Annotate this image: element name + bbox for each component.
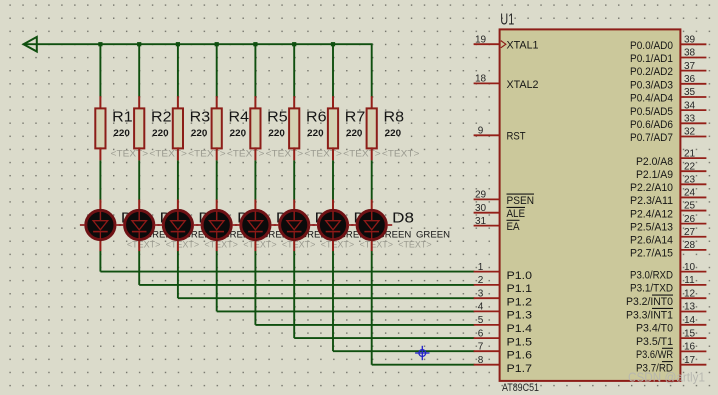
wire: R1 top lead xyxy=(99,96,101,109)
svg-text:P2.7/A15: P2.7/A15 xyxy=(630,248,673,260)
svg-text:P0.2/AD2: P0.2/AD2 xyxy=(630,66,673,78)
svg-text:24: 24 xyxy=(684,188,696,199)
pin 35 P0.4/AD4 xyxy=(630,87,706,104)
wire: bus drop to R7 xyxy=(332,44,334,96)
pin 6 P1.5 xyxy=(474,328,532,348)
svg-text:P3.6/WR: P3.6/WR xyxy=(636,349,673,361)
wire: R5 bottom lead xyxy=(254,147,256,160)
wire: R6 bottom lead xyxy=(293,147,295,160)
R5 body xyxy=(250,108,260,148)
wire: R2 to D2 xyxy=(138,160,140,200)
svg-text:P3.3/INT1: P3.3/INT1 xyxy=(626,309,673,321)
svg-text:<TEXT>: <TEXT> xyxy=(398,240,432,250)
svg-text:3: 3 xyxy=(478,288,484,299)
svg-text:R8: R8 xyxy=(384,109,405,125)
svg-text:6: 6 xyxy=(478,328,484,339)
wire: D6 cathode lead xyxy=(293,238,295,252)
svg-text:22: 22 xyxy=(684,161,696,172)
svg-text:P0.0/AD0: P0.0/AD0 xyxy=(630,40,673,52)
D2 terminal ticks xyxy=(119,224,124,226)
svg-text:9: 9 xyxy=(478,126,484,137)
svg-text:P1.7: P1.7 xyxy=(507,363,533,375)
svg-text:220: 220 xyxy=(191,128,207,139)
svg-text:30: 30 xyxy=(475,203,487,214)
svg-text:GREEN: GREEN xyxy=(416,230,450,240)
wire: top bus net from arrow to R8 column xyxy=(24,44,372,96)
pin 39 P0.0/AD0 xyxy=(630,35,706,52)
D5 terminal ticks xyxy=(235,224,240,226)
wire: R6 to D6 xyxy=(293,160,295,200)
svg-text:XTAL2: XTAL2 xyxy=(507,79,539,91)
wire: D7 cathode to P1.6 xyxy=(333,251,474,352)
svg-text:R2: R2 xyxy=(151,109,172,125)
resistor R7 220 xyxy=(328,96,381,200)
pin 30 ALE xyxy=(474,203,525,220)
IC U1 AT89C51 xyxy=(474,11,707,394)
svg-text:PSEN: PSEN xyxy=(507,195,535,207)
pin 12 P3.2/INT0 xyxy=(626,288,706,308)
svg-text:<TEXT>: <TEXT> xyxy=(360,240,394,250)
pin 17 P3.7/RD xyxy=(636,355,706,375)
svg-text:P2.1/A9: P2.1/A9 xyxy=(636,169,673,181)
wire: R3 to D3 xyxy=(177,160,179,200)
pin 27 P2.6/A14 xyxy=(630,227,706,247)
wire: R5 to D5 xyxy=(254,160,256,200)
svg-text:XTAL1: XTAL1 xyxy=(507,40,539,52)
D5 body xyxy=(241,210,270,239)
svg-text:<TEXT>: <TEXT> xyxy=(243,240,277,250)
svg-text:R6: R6 xyxy=(306,109,327,125)
svg-text:R3: R3 xyxy=(190,109,211,125)
junction node at R5 top xyxy=(253,42,257,46)
svg-text:33: 33 xyxy=(684,114,696,125)
D7 terminal ticks xyxy=(313,224,318,226)
wire: D3 cathode to P1.2 xyxy=(178,251,475,299)
pin 37 P0.2/AD2 xyxy=(630,61,706,78)
svg-text:14: 14 xyxy=(684,315,696,326)
wire: R6 top lead xyxy=(293,96,295,109)
svg-text:P2.6/A14: P2.6/A14 xyxy=(630,235,673,247)
svg-text:P0.5/AD5: P0.5/AD5 xyxy=(630,106,673,118)
wire: bus drop to R6 xyxy=(293,44,295,96)
svg-text:31: 31 xyxy=(475,216,487,227)
R3 body xyxy=(173,108,183,148)
LED D4 GREEN xyxy=(196,200,295,252)
pin 19 XTAL1 xyxy=(474,34,539,51)
svg-text:P1.0: P1.0 xyxy=(507,270,533,282)
svg-text:25: 25 xyxy=(684,201,696,212)
svg-text:CSDN @artly1: CSDN @artly1 xyxy=(628,370,705,385)
svg-text:2: 2 xyxy=(478,275,484,286)
wire: D1 cathode lead xyxy=(99,238,101,252)
pin 36 P0.3/AD3 xyxy=(630,74,706,91)
svg-text:P2.4/A12: P2.4/A12 xyxy=(630,208,673,220)
junction node at R7 top xyxy=(331,42,335,46)
svg-text:38: 38 xyxy=(684,48,696,59)
D8 terminal ticks xyxy=(351,224,356,226)
resistor R8 220 xyxy=(367,96,420,200)
junction node at R2 top xyxy=(137,42,141,46)
resistor R6 220 xyxy=(289,96,342,200)
svg-text:P3.1/TXD: P3.1/TXD xyxy=(630,283,673,295)
D3 body xyxy=(163,210,192,239)
svg-text:<TEXT>: <TEXT> xyxy=(343,149,381,159)
svg-text:220: 220 xyxy=(268,128,284,139)
wire: R1 bottom lead xyxy=(99,147,101,160)
wire: bus drop to R3 xyxy=(177,44,179,96)
wire: D8 cathode lead xyxy=(371,238,373,252)
wire: R2 bottom lead xyxy=(138,147,140,160)
D2 diode symbol xyxy=(132,211,147,239)
svg-text:P0.4/AD4: P0.4/AD4 xyxy=(630,93,673,105)
wire: bus drop to R4 xyxy=(216,44,218,96)
svg-text:220: 220 xyxy=(385,128,401,139)
svg-text:R7: R7 xyxy=(345,109,366,125)
pin 4 P1.3 xyxy=(474,302,532,322)
resistor R1 220 xyxy=(95,96,148,200)
svg-text:<TEXT>: <TEXT> xyxy=(227,149,265,159)
R6 body xyxy=(289,108,299,148)
wire: R5 top lead xyxy=(254,96,256,109)
svg-text:<TEXT>: <TEXT> xyxy=(382,149,420,159)
wire: R4 top lead xyxy=(216,96,218,109)
R7 body xyxy=(328,108,338,148)
svg-text:<TEXT>: <TEXT> xyxy=(149,149,187,159)
svg-text:P1.2: P1.2 xyxy=(507,296,533,308)
junction node at R1 top xyxy=(98,42,102,46)
resistor R3 220 xyxy=(173,96,226,200)
svg-text:12: 12 xyxy=(684,288,696,299)
svg-text:<TEXT>: <TEXT> xyxy=(282,240,316,250)
wire: D6 cathode to P1.5 xyxy=(294,251,474,338)
wire: D2 cathode lead xyxy=(138,238,140,252)
R8 body xyxy=(367,108,377,148)
wire: R4 bottom lead xyxy=(216,147,218,160)
svg-text:32: 32 xyxy=(684,127,696,138)
pin 2 P1.1 xyxy=(474,275,532,295)
svg-text:P2.3/A11: P2.3/A11 xyxy=(630,195,673,207)
pin 32 P0.7/AD7 xyxy=(630,127,706,144)
svg-text:P3.5/T1: P3.5/T1 xyxy=(636,336,673,348)
svg-text:29: 29 xyxy=(475,190,487,201)
wire: D7 cathode lead xyxy=(332,238,334,252)
LED D5 GREEN xyxy=(235,200,334,252)
wire: D4 anode lead xyxy=(216,200,218,214)
svg-text:<TEXT>: <TEXT> xyxy=(127,240,160,250)
wire: D8 cathode to P1.7 xyxy=(372,251,475,365)
wire: R8 bottom lead xyxy=(371,147,373,160)
svg-text:7: 7 xyxy=(478,341,484,352)
junction node at R6 top xyxy=(292,42,296,46)
svg-text:<TEXT>: <TEXT> xyxy=(321,240,355,250)
svg-text:ALE: ALE xyxy=(507,208,526,220)
D6 terminal ticks xyxy=(274,224,279,226)
svg-text:R1: R1 xyxy=(112,109,133,125)
wire: D5 anode lead xyxy=(254,200,256,214)
wire: R7 bottom lead xyxy=(332,147,334,160)
svg-text:<TEXT>: <TEXT> xyxy=(266,149,304,159)
wire: D3 anode lead xyxy=(177,200,179,214)
wire: D5 cathode to P1.4 xyxy=(255,251,474,325)
resistor R2 220 xyxy=(134,96,187,200)
svg-text:P3.0/RXD: P3.0/RXD xyxy=(630,269,673,281)
svg-text:21: 21 xyxy=(684,148,696,159)
svg-text:P2.5/A13: P2.5/A13 xyxy=(630,221,673,233)
U1 body xyxy=(500,29,681,381)
svg-text:<TEXT>: <TEXT> xyxy=(188,149,226,159)
LED D2 GREEN xyxy=(119,200,218,252)
LED D8 GREEN xyxy=(351,200,450,252)
svg-text:26: 26 xyxy=(684,214,696,225)
R2 body xyxy=(134,108,144,148)
svg-text:220: 220 xyxy=(230,128,246,139)
pin 33 P0.6/AD6 xyxy=(630,114,706,131)
pin 24 P2.3/A11 xyxy=(630,188,706,208)
R1 body xyxy=(95,108,105,148)
pin 22 P2.1/A9 xyxy=(636,161,706,181)
pin 11 P3.1/TXD xyxy=(630,275,706,295)
svg-text:<TEXT>: <TEXT> xyxy=(204,240,238,250)
D7 body xyxy=(318,210,347,239)
pin 7 P1.6 xyxy=(474,341,532,361)
pin 26 P2.5/A13 xyxy=(630,214,706,234)
svg-text:34: 34 xyxy=(684,100,696,111)
pin 13 P3.3/INT1 xyxy=(626,302,706,322)
svg-text:11: 11 xyxy=(684,275,695,286)
svg-text:13: 13 xyxy=(684,302,696,313)
clock symbol on XTAL1 xyxy=(501,41,506,48)
svg-text:19: 19 xyxy=(475,34,487,45)
junction node at R3 top xyxy=(176,42,180,46)
svg-text:18: 18 xyxy=(475,74,487,85)
wire: R8 top lead xyxy=(371,96,373,109)
svg-text:P1.4: P1.4 xyxy=(507,323,533,335)
wire: D1 anode lead xyxy=(99,200,101,214)
origin marker (blue) xyxy=(415,346,429,360)
wire: R2 top lead xyxy=(138,96,140,109)
wire: bus drop to R5 xyxy=(254,44,256,96)
svg-text:P0.7/AD7: P0.7/AD7 xyxy=(630,132,673,144)
D1 terminal ticks xyxy=(80,224,85,226)
svg-text:<TEXT>: <TEXT> xyxy=(111,149,149,159)
svg-text:10: 10 xyxy=(684,262,696,273)
svg-text:AT89C51: AT89C51 xyxy=(502,382,539,394)
svg-text:U1: U1 xyxy=(500,11,514,28)
svg-text:4: 4 xyxy=(478,302,484,313)
wire: D4 cathode lead xyxy=(216,238,218,252)
D2 body xyxy=(125,210,154,239)
D4 diode symbol xyxy=(209,211,224,239)
resistor R4 220 xyxy=(212,96,265,200)
svg-text:P0.3/AD3: P0.3/AD3 xyxy=(630,79,673,91)
svg-text:220: 220 xyxy=(113,128,129,139)
pin 1 P1.0 xyxy=(474,262,532,282)
pin 31 EA xyxy=(474,216,520,233)
svg-text:17: 17 xyxy=(684,355,696,366)
svg-text:5: 5 xyxy=(478,315,484,326)
LED D6 GREEN xyxy=(274,200,373,252)
svg-text:15: 15 xyxy=(684,328,696,339)
junction node at R4 top xyxy=(215,42,219,46)
svg-text:RST: RST xyxy=(507,131,526,143)
wire: D2 anode lead xyxy=(138,200,140,214)
wire: D2 cathode to P1.1 xyxy=(139,251,474,285)
svg-text:P2.2/A10: P2.2/A10 xyxy=(630,182,673,194)
svg-text:28: 28 xyxy=(684,240,696,251)
terminal arrow at left end of bus xyxy=(24,37,37,52)
D8 body xyxy=(357,210,386,239)
svg-text:P3.4/T0: P3.4/T0 xyxy=(636,323,673,335)
svg-text:P0.1/AD1: P0.1/AD1 xyxy=(630,53,673,65)
svg-text:220: 220 xyxy=(307,128,323,139)
pin 25 P2.4/A12 xyxy=(630,201,706,221)
wire: R3 top lead xyxy=(177,96,179,109)
svg-text:<TEXT>: <TEXT> xyxy=(166,240,200,250)
svg-text:220: 220 xyxy=(152,128,168,139)
svg-text:P0.6/AD6: P0.6/AD6 xyxy=(630,119,673,131)
pin 5 P1.4 xyxy=(474,315,532,335)
svg-text:P1.6: P1.6 xyxy=(507,349,533,361)
pin 9 RST xyxy=(474,126,526,143)
wire: D1 cathode to P1.0 xyxy=(100,251,474,272)
pin 8 P1.7 xyxy=(474,355,532,375)
wire: bus drop to R1 xyxy=(99,44,101,96)
pin 34 P0.5/AD5 xyxy=(630,100,706,117)
svg-text:R5: R5 xyxy=(267,109,288,125)
wire: R3 bottom lead xyxy=(177,147,179,160)
svg-text:8: 8 xyxy=(478,355,484,366)
svg-text:R4: R4 xyxy=(229,109,250,125)
pin 18 XTAL2 xyxy=(474,74,539,91)
svg-text:220: 220 xyxy=(346,128,362,139)
pin 14 P3.4/T0 xyxy=(636,315,706,335)
wire: D5 cathode lead xyxy=(254,238,256,252)
svg-text:37: 37 xyxy=(684,61,696,72)
svg-text:23: 23 xyxy=(684,175,696,186)
svg-text:39: 39 xyxy=(684,35,696,46)
pin 29 PSEN xyxy=(474,190,534,207)
wire: R4 to D4 xyxy=(216,160,218,200)
LED D7 GREEN xyxy=(313,200,412,252)
D6 body xyxy=(280,210,309,239)
pin 16 P3.6/WR xyxy=(636,342,706,362)
D3 terminal ticks xyxy=(157,224,162,226)
pin 15 P3.5/T1 xyxy=(636,328,706,348)
svg-text:P2.0/A8: P2.0/A8 xyxy=(636,156,673,168)
svg-text:D8: D8 xyxy=(392,210,414,226)
D1 diode symbol xyxy=(93,211,108,239)
wire: R8 to D8 xyxy=(371,160,373,200)
pin 21 P2.0/A8 xyxy=(636,148,706,168)
wire: D3 cathode lead xyxy=(177,238,179,252)
LED D3 GREEN xyxy=(157,200,256,252)
R4 body xyxy=(212,108,222,148)
wire: R1 to D1 xyxy=(99,160,101,200)
svg-text:P1.3: P1.3 xyxy=(507,310,533,322)
wire: D6 anode lead xyxy=(293,200,295,214)
wire: R7 top lead xyxy=(332,96,334,109)
resistor R5 220 xyxy=(250,96,303,200)
pin 23 P2.2/A10 xyxy=(630,175,706,195)
D8 diode symbol xyxy=(364,211,379,239)
D7 diode symbol xyxy=(326,211,341,239)
svg-text:1: 1 xyxy=(478,262,484,273)
D5 diode symbol xyxy=(248,211,263,239)
pin 28 P2.7/A15 xyxy=(630,240,706,260)
LED D1 GREEN xyxy=(80,200,179,252)
wire: R7 to D7 xyxy=(332,160,334,200)
wire: bus drop to R2 xyxy=(138,44,140,96)
D4 body xyxy=(202,210,231,239)
svg-text:P3.2/INT0: P3.2/INT0 xyxy=(626,296,673,308)
svg-text:35: 35 xyxy=(684,87,696,98)
D3 diode symbol xyxy=(171,211,186,239)
D6 diode symbol xyxy=(287,211,302,239)
wire: D7 anode lead xyxy=(332,200,334,214)
svg-text:16: 16 xyxy=(684,342,696,353)
pin 3 P1.2 xyxy=(474,288,532,308)
svg-text:P1.1: P1.1 xyxy=(507,283,533,295)
wire: D8 anode lead xyxy=(371,200,373,214)
svg-text:P1.5: P1.5 xyxy=(507,336,533,348)
pin 38 P0.1/AD1 xyxy=(630,48,706,65)
wire: D4 cathode to P1.3 xyxy=(217,251,475,312)
pin 10 P3.0/RXD xyxy=(630,262,706,282)
D1 body xyxy=(86,210,115,239)
svg-text:27: 27 xyxy=(684,227,696,238)
svg-text:36: 36 xyxy=(684,74,696,85)
svg-text:<TEXT>: <TEXT> xyxy=(304,149,342,159)
D4 terminal ticks xyxy=(196,224,201,226)
svg-text:EA: EA xyxy=(507,221,521,233)
